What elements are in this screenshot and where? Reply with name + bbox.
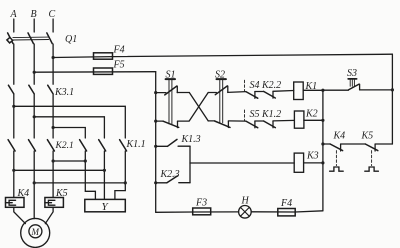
motor M outer circle	[21, 218, 50, 247]
thermal element K5 heater symbol	[45, 200, 55, 205]
pushbutton S2 NC blade	[215, 121, 230, 127]
svg-text:H: H	[241, 196, 250, 207]
wire column 6 down	[115, 151, 125, 199]
wire row1 bus to S1	[156, 92, 166, 94]
svg-text:S2: S2	[215, 70, 225, 81]
motor M inner circle	[29, 225, 42, 238]
wire K1.2 to coil K2	[273, 119, 294, 122]
wire S2 out to S4	[228, 91, 246, 94]
node merge1 left	[52, 159, 55, 162]
contactor K3.1 pole A blade	[8, 85, 13, 94]
wire fuse F4 to right bus	[113, 54, 393, 56]
switch Q1 linkage bar	[13, 37, 49, 40]
contactor K1.1 pole 2 blade	[99, 140, 106, 151]
wire B output down to motor	[33, 151, 35, 219]
thermal K5 dashed actuator	[371, 151, 373, 166]
switch Q1 handle square	[7, 37, 13, 43]
pushbutton S2 NC tick	[227, 121, 229, 127]
svg-text:A: A	[10, 9, 18, 20]
contact K1.2 NC tick	[272, 121, 274, 128]
wire K5 to motor	[45, 207, 53, 223]
wire row2 bus to S1	[156, 120, 163, 122]
fuse F3	[193, 208, 211, 215]
wire bus to K4 contact	[323, 143, 330, 145]
node coil bus K1	[321, 89, 324, 92]
node branch B	[33, 115, 36, 118]
pushbutton S3 head bar	[348, 78, 356, 80]
wire left control bus vertical	[155, 72, 157, 213]
wire phase B top	[33, 19, 35, 32]
contactor K1.1 pole 3 blade	[120, 140, 127, 151]
svg-text:F4: F4	[113, 45, 125, 56]
svg-text:S1: S1	[166, 70, 176, 81]
coil K3	[294, 153, 303, 172]
pushbutton S1 NC tick	[177, 121, 179, 127]
coil K2	[294, 111, 304, 128]
svg-text:M: M	[31, 227, 40, 237]
pushbutton S3 NO blade	[348, 84, 359, 90]
wire merge line B to column6	[34, 182, 125, 184]
wire lamp H to F4 bottom	[251, 211, 295, 213]
wire coil K2 to bus	[304, 119, 323, 121]
svg-text:S5: S5	[250, 109, 260, 120]
svg-text:S4: S4	[250, 80, 260, 91]
svg-text:K3: K3	[306, 151, 319, 162]
wire B to fuse F5 to control bus	[34, 71, 156, 74]
svg-text:F3: F3	[195, 198, 207, 209]
contact K1.3 NO blade	[168, 139, 178, 146]
wire coil bus vertical	[322, 90, 324, 211]
svg-text:K2: K2	[305, 109, 318, 120]
wire cross diagonal TL-BR	[189, 93, 208, 121]
wire K2.3 out	[179, 182, 190, 184]
pushbutton S2 NO fixed contact tick	[227, 86, 229, 92]
wire K4 to motor	[14, 207, 26, 223]
wire merge line A to column5	[14, 169, 105, 171]
node right bus S3	[391, 88, 394, 91]
switch Q1 pole B blade	[28, 33, 33, 44]
wire phase A Q1 to K3.1	[13, 44, 15, 84]
pushbutton S1 NC blade	[163, 121, 179, 127]
pushbutton S1 NO fixed contact tick	[176, 86, 178, 92]
pushbutton S1 head bar	[166, 78, 175, 80]
svg-text:F4: F4	[280, 198, 292, 209]
pushbutton S2 rod	[220, 80, 223, 123]
thermal contact K5 tick	[374, 144, 376, 151]
svg-text:K1.2: K1.2	[261, 109, 281, 120]
wire S5 to K1.2	[255, 120, 264, 122]
wire phase B K3.1 to K2.1	[33, 94, 35, 138]
svg-text:K2.1: K2.1	[55, 141, 74, 151]
coil K1	[294, 82, 304, 100]
wire K2.2 to coil K1	[273, 90, 294, 93]
wire F4 bottom to coil bus	[295, 211, 323, 212]
node control bus K2.3	[154, 181, 157, 184]
wire S1 NC out to cross BL	[178, 120, 190, 122]
node merge1 right	[84, 159, 87, 162]
wire branch A to column 6	[14, 106, 126, 138]
wire S4 to K2.2	[255, 91, 264, 93]
svg-text:K1.1: K1.1	[126, 139, 146, 150]
thermal contact K4 blade	[330, 144, 343, 151]
lamp H cross	[241, 207, 250, 216]
fuse F5	[94, 68, 113, 74]
thermal contact K5 blade	[365, 144, 378, 151]
star box Y	[85, 199, 126, 211]
lamp H	[239, 206, 252, 219]
wire coil K1 to bus	[303, 89, 323, 91]
node branch A	[12, 105, 15, 108]
wire branch B to column 5	[34, 117, 104, 138]
node coil bus K2	[321, 119, 324, 122]
node merge3 left	[33, 181, 36, 184]
pushbutton S1 rod	[169, 80, 172, 124]
pushbutton S5 actuator dashed	[244, 110, 246, 121]
contactor K2.1 pole B blade	[29, 140, 36, 151]
wire column 5 down	[103, 151, 105, 199]
wire phase C K3.1 to K2.1	[52, 94, 54, 138]
wire bus to K2.3	[156, 182, 167, 184]
svg-text:K5: K5	[55, 188, 68, 199]
wire merge line C to column4	[53, 160, 85, 162]
wire K4 to K5	[341, 143, 366, 145]
node merge2 right	[103, 169, 106, 172]
pushbutton S3 fixed tick	[359, 84, 361, 90]
thermal K4 heater symbol	[330, 167, 344, 171]
pushbutton S5 NC blade	[246, 121, 258, 128]
wire bus to K1.3	[156, 145, 168, 147]
pushbutton S1 NO contact blade	[165, 86, 177, 95]
contact K2.3 NO blade	[167, 176, 178, 183]
svg-text:K2.3: K2.3	[160, 169, 180, 180]
svg-text:C: C	[49, 9, 56, 20]
fuse F4 bottom	[278, 209, 295, 216]
wire phase C top	[52, 19, 54, 32]
contactor K2.1 pole C blade	[47, 140, 54, 151]
thermal element K4 box	[6, 198, 25, 208]
wire cross diagonal BL-TR	[189, 93, 208, 121]
switch Q1 pole A blade	[8, 33, 13, 44]
node F5 tap on B	[33, 71, 36, 74]
pushbutton S5 NC tick	[254, 121, 256, 128]
contactor K3.1 pole C blade	[48, 85, 53, 94]
thermal contact K4 tick	[340, 144, 342, 151]
pushbutton S4 actuator dashed	[244, 80, 246, 91]
wire K1.3 out	[178, 145, 190, 147]
node control bus row1	[154, 91, 157, 94]
pushbutton S4 NC blade	[246, 92, 258, 99]
pushbutton S4 NC fixed tick	[254, 92, 256, 99]
switch Q1 pole C blade	[47, 33, 52, 44]
wire S3 to right bus	[360, 89, 393, 91]
thermal element K4 heater symbol	[6, 200, 16, 205]
wire K1 node to S3	[323, 89, 349, 91]
thermal K5 heater symbol	[365, 167, 379, 171]
node coil bus K4 row	[321, 142, 324, 145]
wire coil K3 to bus	[304, 162, 323, 164]
wire A output down	[13, 151, 15, 198]
pushbutton S3 rod strokes	[350, 80, 354, 86]
svg-text:K4: K4	[17, 188, 30, 199]
svg-text:K1.3: K1.3	[181, 134, 201, 145]
wire phase A top	[13, 19, 15, 32]
node merge3 right	[124, 181, 127, 184]
wire K1.3/K2.3 junction vertical	[189, 146, 191, 183]
node coil bus K3	[321, 161, 324, 164]
wire S1 NO out to cross TL	[177, 92, 189, 94]
pushbutton S2 NO contact blade	[215, 86, 227, 95]
node branch C	[52, 126, 55, 129]
svg-text:F5: F5	[113, 60, 125, 71]
contactor K2.1 pole A blade	[8, 140, 15, 151]
node merge2 left	[12, 169, 15, 172]
svg-text:K3.1: K3.1	[54, 87, 74, 98]
svg-text:K5: K5	[361, 131, 374, 142]
wire phase C Q1 to K3.1	[52, 44, 54, 84]
svg-text:S3: S3	[347, 68, 357, 79]
wire phase B Q1 to K3.1	[33, 44, 35, 84]
contact K2.2 NC blade	[264, 91, 276, 98]
pushbutton S2 head bar	[217, 78, 226, 80]
wire K5 to right bus	[375, 143, 392, 145]
svg-text:K2.2: K2.2	[261, 80, 281, 91]
thermal element K5 box	[45, 198, 64, 208]
thermal K4 dashed actuator	[335, 151, 337, 166]
contact K2.2 NC fixed tick	[272, 92, 274, 99]
node F4 tap on C	[52, 56, 55, 59]
wire S2 to S5	[228, 120, 246, 122]
fuse F4	[94, 53, 113, 59]
svg-text:Q1: Q1	[65, 34, 77, 45]
wire to coil K3	[190, 162, 294, 164]
wire column 4 down	[85, 151, 95, 199]
contact K1.2 NC blade	[264, 121, 276, 128]
node control bus row2	[154, 120, 157, 123]
contactor K1.1 pole 1 blade	[80, 140, 87, 151]
wire phase A K3.1 to K2.1	[13, 94, 15, 138]
wire right bus vertical	[391, 54, 393, 144]
node control bus K1.3	[154, 145, 157, 148]
wire C to fuse F4	[53, 56, 112, 59]
svg-text:B: B	[31, 9, 37, 20]
wire C output down	[52, 151, 54, 198]
contactor K3.1 pole B blade	[29, 85, 34, 94]
wire cross TR to S2	[208, 92, 216, 94]
wire branch C to column 4	[53, 128, 85, 139]
svg-text:K4: K4	[333, 131, 346, 142]
wire F3 to lamp H	[193, 211, 239, 213]
wire bottom row left	[156, 211, 193, 213]
wire cross BR to S2	[208, 120, 214, 122]
